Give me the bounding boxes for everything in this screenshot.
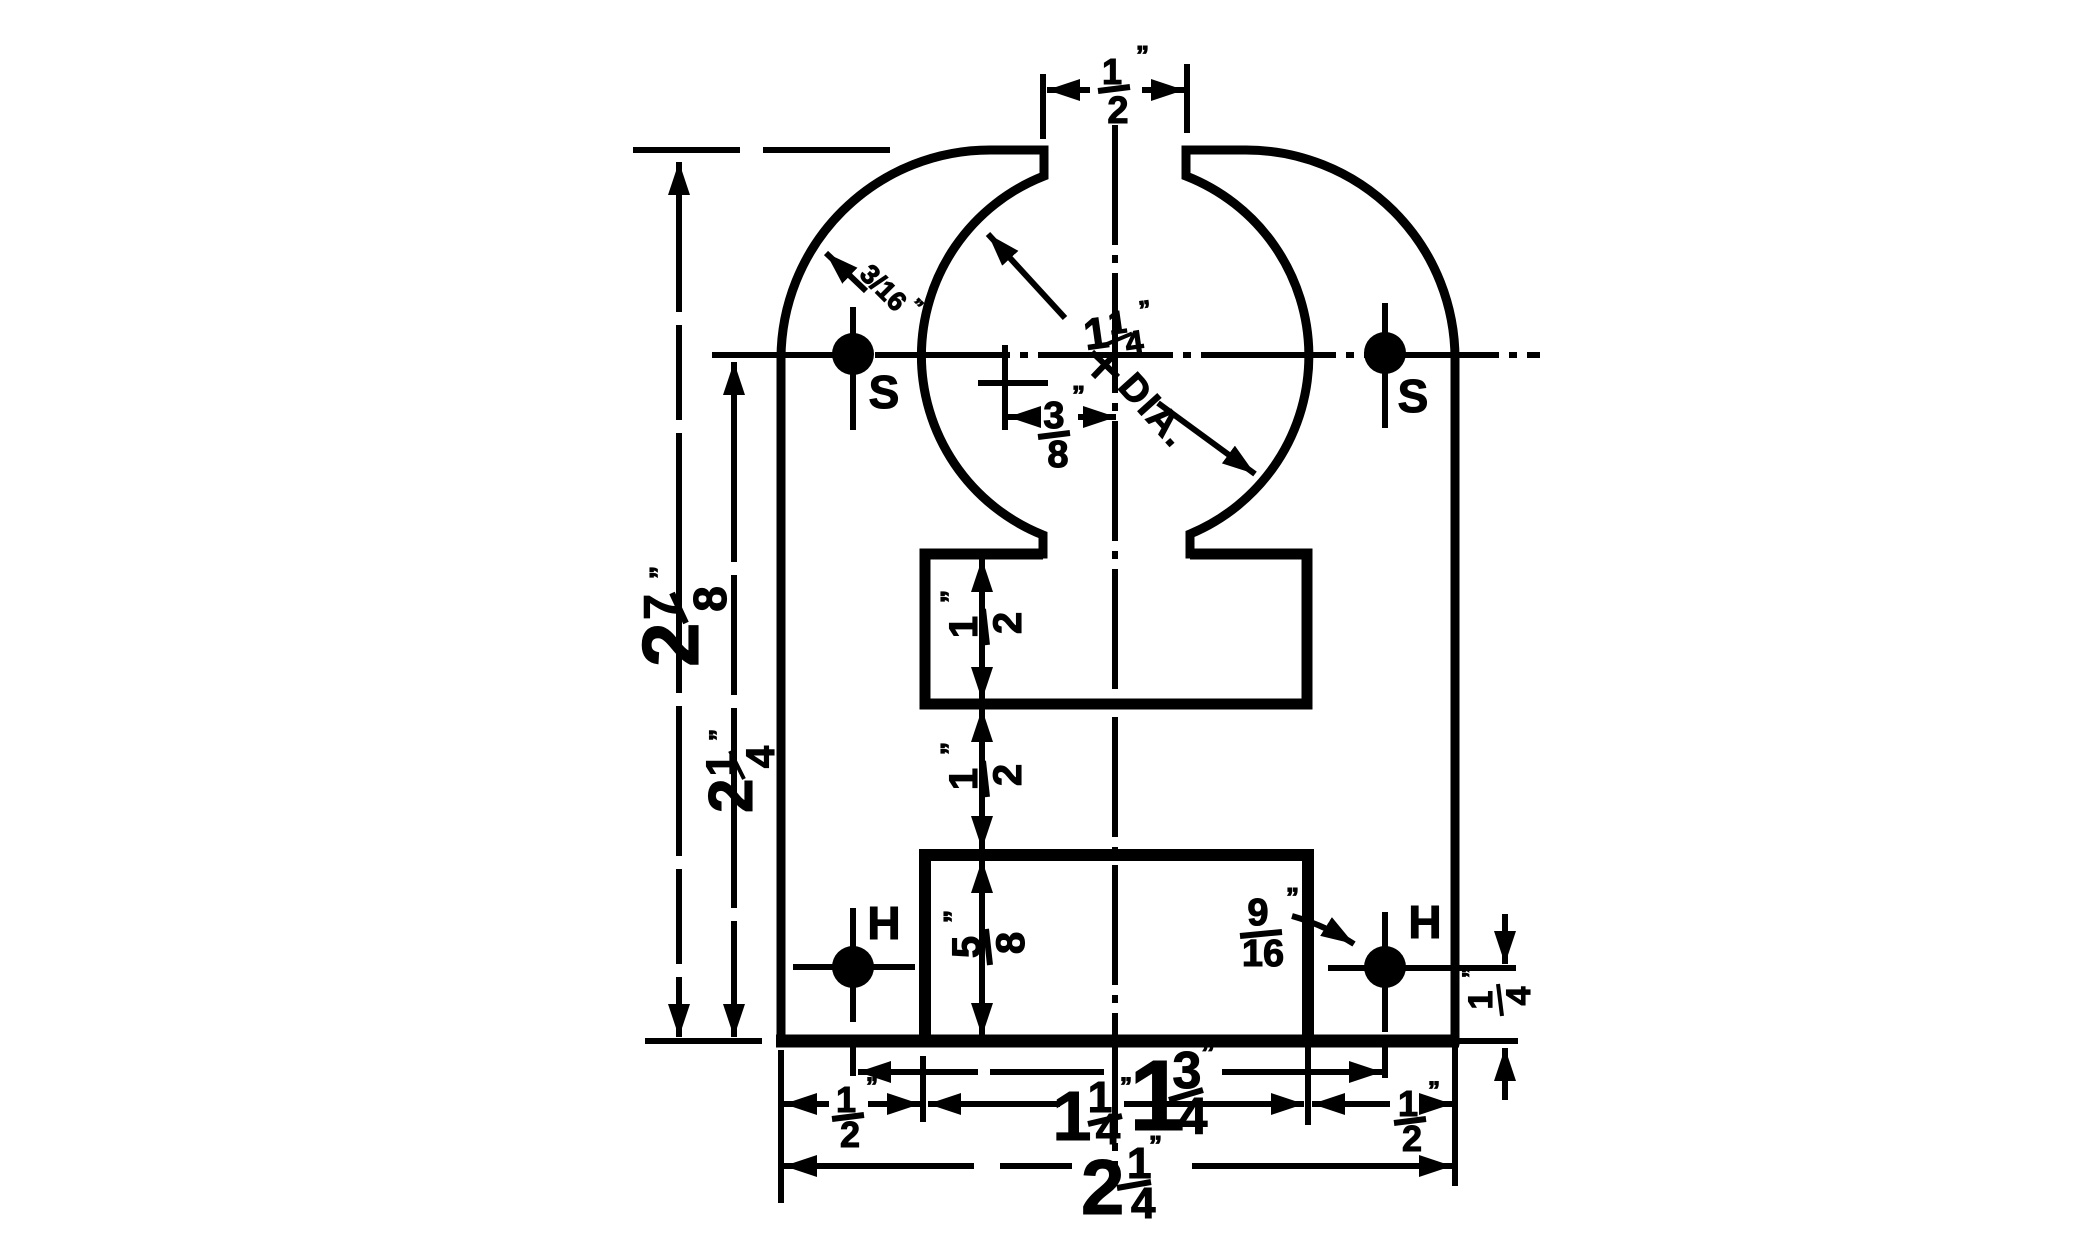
svg-text:1: 1 bbox=[942, 768, 986, 790]
svg-text:”: ” bbox=[705, 729, 732, 741]
svg-text:”: ” bbox=[1136, 40, 1149, 70]
extension line left plate edge bbox=[778, 1050, 784, 1203]
svg-text:9: 9 bbox=[1247, 892, 1268, 934]
svg-text:”: ” bbox=[1120, 1073, 1132, 1100]
extension line tab right edge bbox=[1305, 1044, 1311, 1125]
svg-text:4: 4 bbox=[739, 745, 783, 768]
vertical centerline bbox=[1112, 125, 1118, 1175]
radius arrow lower-right bbox=[1158, 403, 1255, 474]
middle chain dim 1/2 (notch height) bbox=[935, 559, 1030, 700]
svg-text:2: 2 bbox=[840, 1114, 860, 1155]
svg-text:H: H bbox=[867, 897, 900, 949]
dim 3/8 (center offset) bbox=[978, 345, 1116, 476]
svg-text:4: 4 bbox=[1179, 1088, 1208, 1146]
middle chain dim 1/2 (gap) bbox=[935, 709, 1030, 849]
svg-text:”: ” bbox=[1201, 1037, 1215, 1068]
svg-text:2: 2 bbox=[986, 612, 1030, 634]
svg-text:2: 2 bbox=[697, 779, 766, 813]
bottom dim row 3: overall width 2 1/4 bbox=[784, 1130, 1452, 1231]
hole H left bbox=[793, 897, 915, 1076]
svg-text:”: ” bbox=[1428, 1077, 1440, 1104]
bottom edge thick bbox=[776, 1035, 1459, 1048]
dim 2 1/4 height bbox=[697, 362, 783, 1037]
hole S right bbox=[1364, 303, 1428, 428]
hole S left bbox=[832, 307, 899, 430]
svg-text:”: ” bbox=[1286, 882, 1299, 912]
svg-text:1: 1 bbox=[942, 616, 986, 638]
svg-text:”: ” bbox=[935, 742, 965, 755]
leader to outer arc (3/16) bbox=[826, 253, 927, 327]
bottom dim row 1: 1 3/4 between H holes bbox=[858, 1037, 1382, 1152]
radius arrow upper-left bbox=[988, 234, 1065, 318]
svg-text:2: 2 bbox=[1107, 90, 1128, 132]
svg-text:”: ” bbox=[938, 910, 968, 923]
svg-text:2: 2 bbox=[626, 623, 715, 668]
horizontal centerline bbox=[712, 352, 1540, 358]
svg-text:2: 2 bbox=[1402, 1118, 1422, 1159]
svg-text:S: S bbox=[1398, 370, 1429, 422]
svg-text:H: H bbox=[1408, 896, 1441, 948]
svg-text:4: 4 bbox=[1131, 1179, 1156, 1228]
svg-text:16: 16 bbox=[1242, 933, 1284, 975]
dim 1/4 right side bbox=[1458, 914, 1538, 1100]
svg-text:2: 2 bbox=[986, 764, 1030, 786]
svg-text:3: 3 bbox=[1043, 395, 1064, 437]
svg-text:8: 8 bbox=[684, 586, 736, 612]
label 1 1/4 DIA bbox=[988, 234, 1255, 474]
extension line right plate edge bbox=[1452, 1046, 1458, 1186]
hole H right bbox=[1328, 896, 1516, 1078]
svg-text:”: ” bbox=[1072, 380, 1085, 410]
leader 9/16 to hole H right bbox=[1240, 882, 1354, 975]
dim 2 7/8 height bbox=[626, 162, 736, 1037]
svg-text:”: ” bbox=[644, 566, 674, 579]
bottom dim row 2: 1/2 right bbox=[1312, 1077, 1452, 1159]
svg-text:5: 5 bbox=[945, 936, 989, 958]
extension line top edge bbox=[633, 147, 890, 153]
tab (bent flap, thick) bbox=[925, 855, 1308, 1041]
svg-text:4: 4 bbox=[1500, 986, 1538, 1005]
plate outline bbox=[781, 150, 1455, 1041]
middle chain dim 5/8 (tab height) bbox=[938, 860, 1033, 1036]
svg-text:8: 8 bbox=[1047, 434, 1068, 476]
extension line bottom edge bbox=[645, 1038, 762, 1044]
svg-text:”: ” bbox=[1458, 967, 1483, 978]
svg-text:S: S bbox=[869, 366, 900, 418]
svg-text:”: ” bbox=[1149, 1130, 1162, 1160]
svg-text:1: 1 bbox=[1462, 991, 1500, 1010]
svg-text:”: ” bbox=[935, 590, 965, 603]
notch (thicker overdraw) bbox=[925, 554, 1307, 704]
bottom dim row 2: 1/2 left bbox=[784, 1073, 920, 1155]
top slot width dim 1/2 bbox=[1043, 40, 1187, 139]
svg-text:”: ” bbox=[866, 1073, 878, 1100]
extension line tab left edge bbox=[920, 1056, 926, 1122]
bottom dim row 2: 1 1/4 tab width bbox=[928, 1073, 1304, 1155]
svg-text:8: 8 bbox=[989, 932, 1033, 954]
